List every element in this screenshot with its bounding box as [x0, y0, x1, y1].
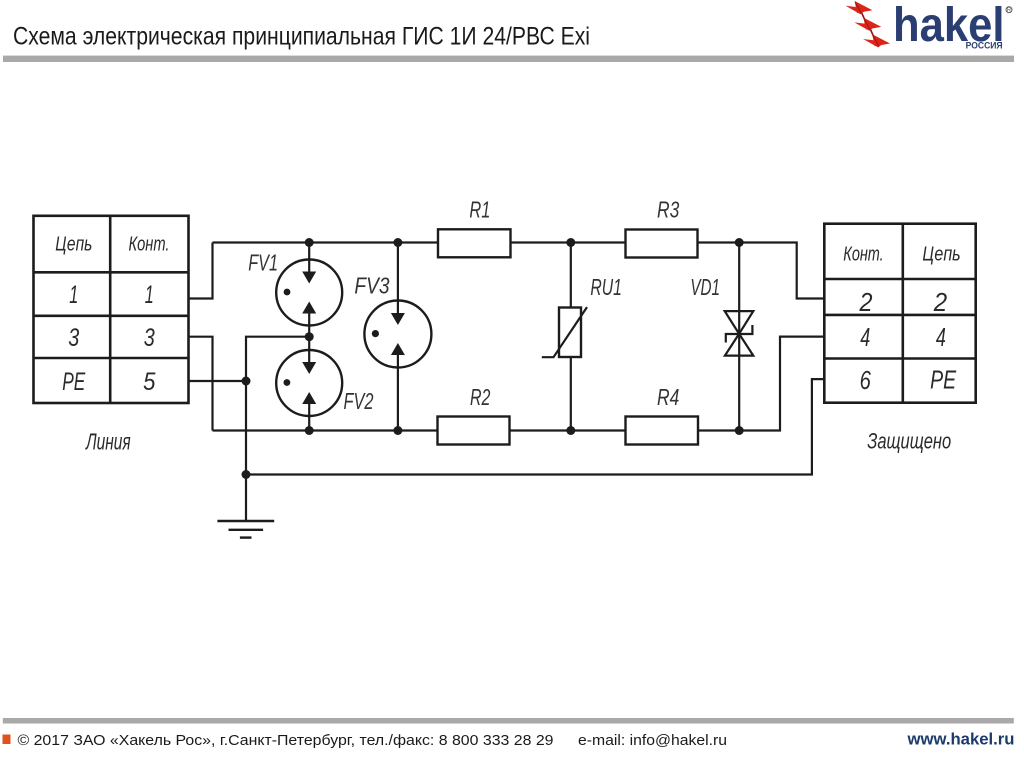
junction nodes — [242, 238, 744, 479]
wire: PE feed from left table — [189, 380, 247, 382]
svg-text:1: 1 — [69, 281, 78, 309]
wire: FV1-FV2 link — [308, 325, 310, 352]
wire: row1 feed from left table to top rail — [189, 243, 213, 299]
node: bottom rail / VD1 — [735, 426, 744, 435]
wire: bottom rail between R2 and R4 — [510, 429, 626, 431]
svg-text:FV1: FV1 — [248, 250, 278, 276]
footer separator bar — [3, 718, 1014, 724]
node: top rail / FV1 — [305, 238, 314, 247]
lightning connector seg 1 — [862, 13, 865, 20]
logo registered mark — [1006, 7, 1012, 14]
svg-text:© 2017 ЗАО «Хакель Рос», г.Сан: © 2017 ЗАО «Хакель Рос», г.Санкт-Петербу… — [18, 733, 554, 749]
lightning flash 3 — [863, 34, 890, 47]
resistor R3 — [626, 230, 698, 258]
lightning flash 1 — [846, 1, 873, 14]
svg-text:PE: PE — [930, 365, 956, 395]
wire: ground bus to right table row 6 — [246, 379, 824, 474]
top separator bar — [3, 56, 1014, 62]
wire: FV3 bottom stem — [397, 367, 399, 431]
wire: RU1 vertical — [570, 243, 572, 431]
svg-text:Защищено: Защищено — [867, 429, 951, 454]
resistor R1 — [438, 229, 511, 257]
svg-text:VD1: VD1 — [690, 274, 720, 300]
node: bottom rail / FV2 — [305, 426, 314, 435]
footer bullet square — [3, 735, 11, 745]
wire: bottom rail left section — [213, 429, 438, 431]
TVS diode VD1 — [725, 311, 754, 356]
svg-text:FV3: FV3 — [354, 273, 389, 299]
svg-text:2: 2 — [859, 287, 873, 317]
svg-text:RU1: RU1 — [590, 274, 622, 300]
arrester FV1 — [276, 260, 342, 326]
svg-text:3: 3 — [144, 324, 155, 352]
wire: top rail left section — [213, 241, 439, 243]
lightning flash 2 — [854, 18, 881, 31]
svg-text:Цепь: Цепь — [55, 234, 92, 256]
svg-text:Конт.: Конт. — [843, 243, 883, 266]
svg-text:R1: R1 — [469, 196, 490, 222]
resistor R4 — [626, 417, 699, 445]
wire: bottom rail from R4 to right table row 4 — [698, 337, 825, 431]
svg-text:Конт.: Конт. — [129, 234, 170, 256]
wire: VD1 vertical — [738, 243, 740, 431]
svg-text:Цепь: Цепь — [922, 243, 960, 266]
svg-text:R3: R3 — [657, 196, 679, 222]
svg-text:РОССИЯ: РОССИЯ — [966, 41, 1003, 52]
svg-text:R2: R2 — [470, 384, 490, 410]
svg-text:www.hakel.ru: www.hakel.ru — [906, 730, 1014, 749]
svg-text:2: 2 — [933, 287, 948, 317]
svg-text:PE: PE — [62, 368, 85, 396]
lightning connector seg 2 — [870, 29, 873, 36]
svg-text:FV2: FV2 — [344, 388, 374, 414]
arrester FV3 — [364, 301, 431, 368]
right terminal table (Защищено) — [824, 224, 975, 403]
wire: FV2 bottom stem — [308, 415, 310, 431]
node: ground bus junction — [242, 470, 251, 479]
wire: top rail between R1 and R3 — [511, 241, 626, 243]
svg-text:R: R — [1007, 8, 1011, 14]
svg-text:1: 1 — [145, 281, 154, 309]
node: bottom rail / RU1 — [566, 426, 575, 435]
ground symbol — [217, 521, 274, 538]
arrester FV2 — [276, 350, 342, 416]
left terminal table (Линия) — [34, 216, 189, 403]
svg-text:3: 3 — [68, 324, 79, 352]
node: bottom rail / FV3 — [393, 426, 402, 435]
node: PE wire junction — [242, 377, 251, 386]
svg-text:Схема электрическая принципиал: Схема электрическая принципиальная ГИС 1… — [13, 23, 590, 51]
wire: top rail from R3 to right table row 2 — [698, 243, 825, 299]
wire: row2 feed from left table down to bottom rail — [189, 337, 213, 431]
svg-text:Линия: Линия — [85, 429, 131, 455]
varistor RU1 — [542, 307, 587, 357]
wire: FV3 top stem — [397, 243, 399, 302]
wire: FV1/FV2 midpoint to PE/ground vertical — [246, 337, 309, 521]
node: top rail / FV3 — [393, 238, 402, 247]
logo hakel: lightning bolt — [846, 1, 891, 47]
svg-text:4: 4 — [860, 322, 870, 352]
node: top rail / VD1 — [735, 238, 744, 247]
node: FV1-FV2 midpoint — [305, 332, 314, 341]
svg-text:e-mail: info@hakel.ru: e-mail: info@hakel.ru — [578, 733, 727, 749]
wire: FV1 top stem — [308, 243, 310, 261]
svg-text:R4: R4 — [657, 384, 679, 410]
resistor R2 — [438, 417, 510, 445]
svg-text:5: 5 — [143, 368, 155, 396]
svg-text:6: 6 — [860, 365, 872, 395]
node: top rail / RU1 — [566, 238, 575, 247]
svg-text:4: 4 — [936, 322, 946, 352]
